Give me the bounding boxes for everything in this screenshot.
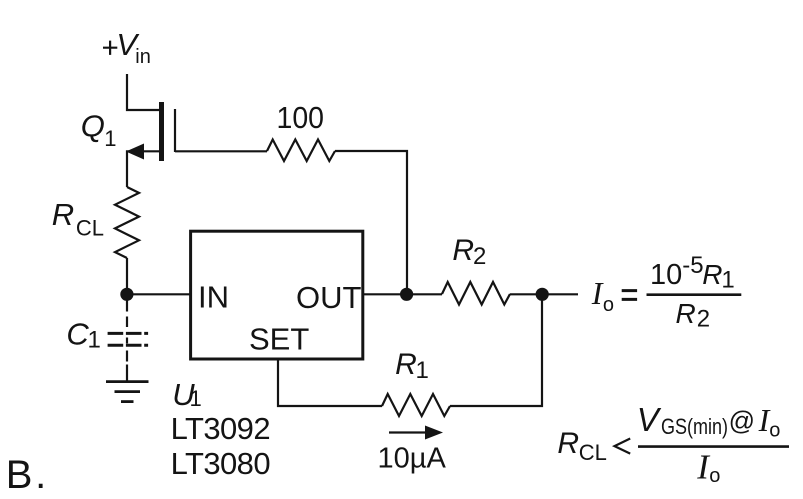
label RCL	[52, 197, 104, 240]
svg-text:@: @	[729, 406, 755, 436]
node A junction dot	[120, 288, 133, 301]
label 10uA	[378, 443, 447, 475]
label R2	[452, 234, 486, 270]
svg-text:R: R	[395, 348, 417, 381]
label LT3092	[171, 411, 271, 446]
svg-text:2: 2	[697, 306, 710, 333]
svg-text:-5: -5	[682, 252, 703, 279]
svg-text:Q: Q	[81, 109, 105, 144]
fraction bar of Io formula	[647, 293, 742, 296]
label U1	[172, 377, 201, 412]
ground	[106, 382, 149, 402]
op-amp U1 regulator box	[191, 231, 363, 359]
svg-text:1: 1	[721, 267, 734, 294]
wire C1 to ground	[126, 365, 128, 382]
svg-text:R: R	[676, 298, 696, 329]
svg-text:B.: B.	[6, 453, 47, 497]
svg-text:LT3080: LT3080	[171, 446, 271, 481]
label 100 value	[277, 100, 325, 135]
svg-text:1: 1	[416, 357, 429, 384]
svg-text:I: I	[591, 275, 604, 311]
svg-text:CL: CL	[76, 215, 104, 240]
svg-text:V: V	[637, 401, 662, 438]
resistor RCL	[115, 187, 139, 258]
pin IN label	[198, 280, 229, 315]
formula Io = 10^-5 R1 / R2	[591, 252, 735, 333]
svg-text:IN: IN	[198, 280, 229, 315]
formula RCL < VGS(min)@Io / Io	[557, 401, 780, 487]
resistor R2	[442, 282, 510, 305]
svg-text:o: o	[769, 420, 780, 442]
wire SET pin to R1	[278, 359, 382, 406]
pin SET label	[249, 322, 309, 357]
wire OUT pin to node B	[363, 293, 407, 295]
svg-text:1: 1	[190, 386, 202, 411]
svg-text:SET: SET	[249, 322, 309, 357]
wire Vin to Q1 drain	[127, 74, 160, 110]
svg-text:10µA: 10µA	[378, 443, 447, 475]
wire node C down to R1	[450, 294, 542, 406]
label R1	[395, 348, 429, 384]
svg-text:OUT: OUT	[296, 280, 362, 315]
wire node A to IN pin	[127, 293, 191, 295]
resistor 100	[267, 140, 335, 162]
supply +Vin label	[103, 41, 117, 55]
svg-text:1: 1	[88, 327, 101, 354]
less-than sign of RCL formula	[615, 439, 631, 454]
svg-text:1: 1	[104, 126, 116, 151]
label Q1	[81, 109, 117, 152]
wire Q1 gate to 100 resistor	[175, 150, 267, 152]
svg-text:10: 10	[650, 259, 682, 291]
svg-text:GS(min): GS(min)	[661, 414, 728, 439]
svg-text:R: R	[452, 234, 474, 267]
node B junction dot	[400, 288, 413, 301]
pin OUT label	[296, 280, 362, 315]
capacitor C1 (dashed, optional)	[108, 301, 149, 362]
node C junction dot	[536, 288, 549, 301]
svg-text:LT3092: LT3092	[171, 411, 271, 446]
svg-text:R: R	[702, 259, 722, 290]
svg-text:o: o	[709, 465, 720, 487]
wire node B to R2	[407, 293, 442, 295]
svg-text:CL: CL	[579, 440, 607, 465]
svg-text:C: C	[66, 317, 89, 352]
equals sign of Io formula	[622, 291, 637, 300]
label B. figure letter	[6, 453, 47, 497]
label C1	[66, 317, 100, 354]
transistor Q1	[126, 102, 175, 187]
svg-text:R: R	[557, 427, 579, 460]
fraction bar of RCL formula	[638, 445, 789, 448]
svg-text:100: 100	[277, 100, 325, 135]
resistor R1	[382, 394, 450, 416]
svg-text:R: R	[52, 197, 74, 232]
svg-text:o: o	[603, 294, 614, 316]
svg-text:in: in	[135, 46, 151, 68]
wire 100 resistor to node B	[335, 151, 407, 294]
label LT3080	[171, 446, 271, 481]
current arrow 10uA	[389, 426, 443, 440]
wire node C output stub	[542, 293, 578, 295]
wire RCL to node A	[126, 258, 128, 294]
wire R2 to node C	[510, 293, 542, 295]
svg-text:2: 2	[473, 243, 486, 270]
